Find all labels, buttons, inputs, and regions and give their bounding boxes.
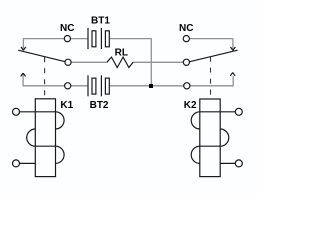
wire right bottom contact to stub — [190, 76, 233, 86]
svg-text:K2: K2 — [184, 100, 197, 111]
relay coil K2 terminal top — [235, 108, 242, 115]
relay coil K2 core — [200, 99, 220, 177]
switch S1 down arrow — [21, 47, 26, 50]
wire BT1 to corner — [110, 38, 152, 40]
svg-text:BT2: BT2 — [90, 100, 109, 111]
relay coil K1 core — [35, 99, 55, 177]
switch S1 common contact circle — [65, 59, 71, 65]
svg-text:RL: RL — [115, 47, 128, 58]
switch S2 lower contact circle — [184, 83, 190, 89]
switch S2 down arrow — [231, 47, 236, 50]
relay coil K1 terminal top — [13, 108, 20, 115]
label BT2 — [90, 100, 109, 111]
wire left bottom from stub to lower contact — [23, 74, 65, 86]
switch S2 arm (right contact) — [190, 50, 238, 62]
resistor RL — [107, 57, 133, 67]
wire lower contact to BT2 — [71, 85, 88, 87]
switch S1 lower contact circle — [65, 83, 71, 89]
wire middle left contact to RL — [71, 61, 107, 63]
label NC right — [179, 23, 193, 34]
wire right top NC contact to corner — [189, 38, 233, 49]
svg-text:NC: NC — [60, 23, 74, 34]
relay coil K2 terminal bottom — [235, 160, 242, 167]
label BT1 — [91, 16, 110, 27]
switch S2 common contact circle — [183, 59, 189, 65]
svg-text:NC: NC — [179, 23, 193, 34]
relay coil K2 winding — [191, 112, 235, 164]
wire left top from corner to NC contact — [23, 38, 64, 49]
wire BT2 to junction to right lower contact — [110, 85, 184, 87]
switch S2 NC fixed contact circle — [183, 36, 189, 42]
svg-text:K1: K1 — [60, 100, 73, 111]
mechanical link K1 (dashed) — [44, 57, 46, 99]
battery BT1 — [88, 28, 109, 49]
mechanical link K2 (dashed) — [210, 57, 212, 99]
wire vertical BT1 to junction — [150, 38, 152, 84]
svg-text:BT1: BT1 — [91, 16, 110, 27]
label NC left — [60, 23, 74, 34]
switch S1 NC fixed contact circle — [64, 36, 70, 42]
relay coil K1 winding — [20, 112, 65, 164]
junction node (filled square) — [149, 84, 153, 88]
battery BT2 — [88, 75, 109, 96]
wire top contact to BT1 — [71, 38, 89, 40]
switch S1 arm (left contact) — [18, 50, 65, 62]
label K1 — [60, 100, 73, 111]
wire RL to right middle contact — [133, 61, 183, 63]
switch S1 up arrow — [21, 73, 26, 76]
relay coil K1 terminal bottom — [13, 160, 20, 167]
switch S2 up arrow — [230, 73, 235, 76]
label RL — [115, 47, 128, 58]
label K2 — [184, 100, 197, 111]
